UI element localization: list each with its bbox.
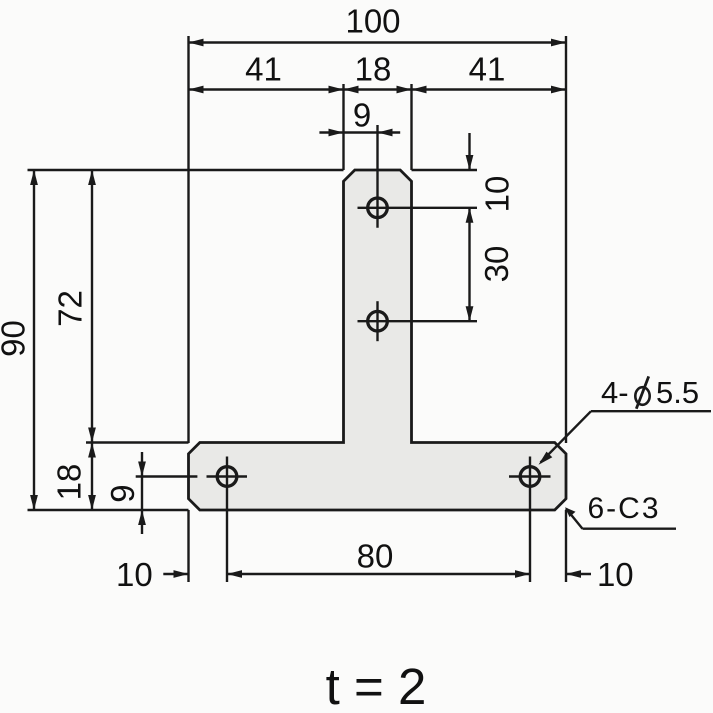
dim 90 arrows (30, 170, 38, 510)
svg-text:10: 10 (116, 556, 153, 593)
stem right extension (x=411.5) (410, 84, 412, 170)
leader 4-phi5.5 arrowhead (539, 452, 553, 465)
dim 30 (right) arrows (466, 208, 474, 321)
svg-text:30: 30 (478, 246, 515, 283)
right extension line (plate right edge, x=566) (565, 36, 567, 443)
hole stem lower (358, 301, 478, 341)
dim 10 bottom-right arrow (566, 570, 581, 578)
left extension line (plate left edge, x=188.5) (187, 36, 189, 443)
dim 80 line (227, 573, 530, 575)
svg-text:10: 10 (479, 176, 516, 213)
dim 10 (right) arrow (466, 155, 474, 170)
svg-text:10: 10 (597, 556, 634, 593)
dim 30 (right) line (468, 208, 470, 321)
hole top (stem upper) (358, 125, 478, 228)
dim 9 (top) line (319, 131, 400, 133)
dim 72 arrows (88, 170, 96, 443)
leader 6-C3 lines (566, 509, 676, 529)
leader 6-C3 arrowhead (565, 507, 576, 517)
svg-text:18: 18 (51, 464, 88, 501)
stem top extension to right (y=170) (412, 169, 478, 171)
svg-text:4-: 4- (601, 375, 629, 410)
svg-text:41: 41 (469, 51, 506, 88)
T-plate body outline with 6 chamfers (189, 170, 567, 510)
svg-text:t = 2: t = 2 (326, 658, 427, 713)
svg-text:6-C3: 6-C3 (587, 492, 660, 525)
dim 9 (left) line (141, 452, 143, 534)
svg-text:72: 72 (52, 290, 89, 327)
hole base right (509, 457, 551, 583)
dim 18 (left) arrows (88, 443, 96, 511)
stem left extension (x=343.5) (342, 84, 344, 170)
dim 9 (top) arrows, outside (329, 129, 393, 137)
stem top extension to left (y=170) (28, 169, 344, 171)
dim 100 line (189, 41, 567, 43)
dim 10 bottom-right line (566, 573, 591, 575)
dim 9 (left) arrows, outside (138, 462, 146, 526)
plate bottom extension to left (y=510) (28, 509, 189, 511)
svg-text:9: 9 (104, 484, 141, 502)
leader 4-phi5.5 lines (541, 411, 712, 462)
svg-text:80: 80 (357, 538, 394, 575)
dim 10 (right) line above (468, 133, 470, 170)
svg-text:9: 9 (353, 97, 371, 134)
dim 41/18/41 arrows (189, 86, 567, 94)
svg-text:90: 90 (0, 320, 32, 357)
svg-text:5.5: 5.5 (656, 375, 699, 410)
dim 80 arrows (227, 570, 530, 578)
dim 100 arrows (189, 39, 567, 47)
svg-text:18: 18 (355, 51, 392, 88)
hole base left (136, 457, 247, 583)
dim 72/18 (left) line (91, 170, 93, 510)
dim 90 (left) line (33, 170, 35, 510)
base top extension to left (y=442.5) (86, 441, 189, 443)
dim 10 bottom-left line (163, 573, 188, 575)
dim 10 bottom-left arrow (174, 570, 189, 578)
svg-text:41: 41 (245, 51, 282, 88)
svg-text:100: 100 (345, 3, 400, 40)
dim 41/18/41 line (189, 88, 567, 90)
